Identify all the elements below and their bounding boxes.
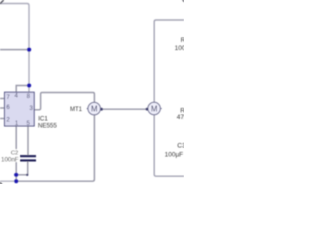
svg-text:C3: C3 bbox=[177, 143, 184, 150]
svg-text:M: M bbox=[91, 104, 98, 113]
svg-text:47Ω: 47Ω bbox=[177, 114, 184, 121]
svg-text:100nF: 100nF bbox=[1, 156, 19, 163]
svg-text:NE555: NE555 bbox=[38, 122, 57, 129]
svg-text:100µF: 100µF bbox=[165, 151, 184, 158]
svg-text:R2: R2 bbox=[181, 37, 184, 44]
svg-text:M: M bbox=[151, 104, 158, 113]
svg-text:100kΩ: 100kΩ bbox=[175, 45, 184, 52]
svg-text:MT1: MT1 bbox=[70, 107, 83, 113]
svg-text:IC1: IC1 bbox=[38, 115, 48, 122]
